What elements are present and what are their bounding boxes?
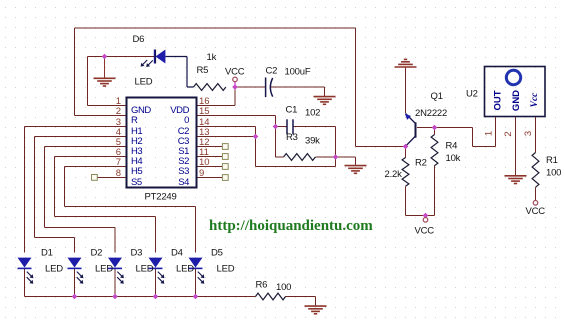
svg-text:S3: S3 — [178, 166, 189, 177]
svg-text:9: 9 — [199, 168, 204, 179]
svg-text:D5: D5 — [211, 248, 223, 259]
svg-text:Vcc: Vcc — [530, 92, 540, 108]
svg-text:LED: LED — [176, 264, 194, 275]
svg-text:2.2k: 2.2k — [385, 169, 403, 180]
svg-text:D3: D3 — [131, 248, 143, 259]
svg-text:S4: S4 — [178, 177, 189, 188]
svg-text:10: 10 — [199, 157, 210, 168]
svg-text:OUT: OUT — [492, 90, 503, 110]
svg-text:100uF: 100uF — [285, 67, 311, 78]
svg-text:100: 100 — [276, 282, 291, 293]
svg-text:R2: R2 — [415, 158, 427, 169]
svg-text:D6: D6 — [133, 34, 145, 45]
svg-text:S5: S5 — [131, 177, 142, 188]
svg-text:C1: C1 — [286, 105, 298, 116]
svg-text:LED: LED — [217, 264, 235, 275]
svg-text:GND: GND — [511, 90, 522, 111]
svg-text:R1: R1 — [546, 155, 558, 166]
svg-text:0: 0 — [184, 115, 189, 126]
svg-text:H5: H5 — [131, 166, 142, 177]
svg-text:VCC: VCC — [415, 226, 435, 237]
svg-text:VCC: VCC — [225, 67, 245, 78]
svg-text:R6: R6 — [256, 280, 268, 291]
svg-text:PT2249: PT2249 — [145, 192, 177, 203]
svg-text:100: 100 — [546, 168, 561, 179]
svg-text:102: 102 — [305, 108, 320, 119]
svg-text:LED: LED — [95, 264, 113, 275]
svg-text:1k: 1k — [207, 52, 217, 63]
svg-text:2: 2 — [503, 131, 514, 136]
svg-text:D2: D2 — [91, 248, 103, 259]
svg-text:2: 2 — [116, 106, 121, 117]
svg-text:R4: R4 — [446, 141, 458, 152]
svg-text:LED: LED — [135, 77, 153, 88]
svg-text:2N2222: 2N2222 — [415, 108, 447, 119]
svg-text:1: 1 — [484, 131, 495, 136]
svg-text:8: 8 — [116, 168, 121, 179]
svg-text:15: 15 — [199, 106, 210, 117]
svg-text:R3: R3 — [286, 132, 298, 143]
svg-text:D4: D4 — [171, 248, 183, 259]
svg-text:VCC: VCC — [526, 206, 546, 217]
svg-text:http://hoiquandientu.com: http://hoiquandientu.com — [209, 218, 373, 234]
svg-text:D1: D1 — [41, 248, 53, 259]
svg-text:Q1: Q1 — [431, 91, 443, 102]
svg-text:LED: LED — [136, 264, 154, 275]
svg-text:10k: 10k — [446, 153, 461, 164]
svg-text:R5: R5 — [197, 65, 209, 76]
svg-text:39k: 39k — [305, 136, 320, 147]
svg-text:R: R — [131, 115, 138, 126]
svg-text:7: 7 — [116, 157, 121, 168]
svg-text:3: 3 — [523, 131, 534, 136]
svg-text:LED: LED — [45, 264, 63, 275]
svg-text:U2: U2 — [466, 89, 478, 100]
svg-text:C2: C2 — [266, 66, 278, 77]
